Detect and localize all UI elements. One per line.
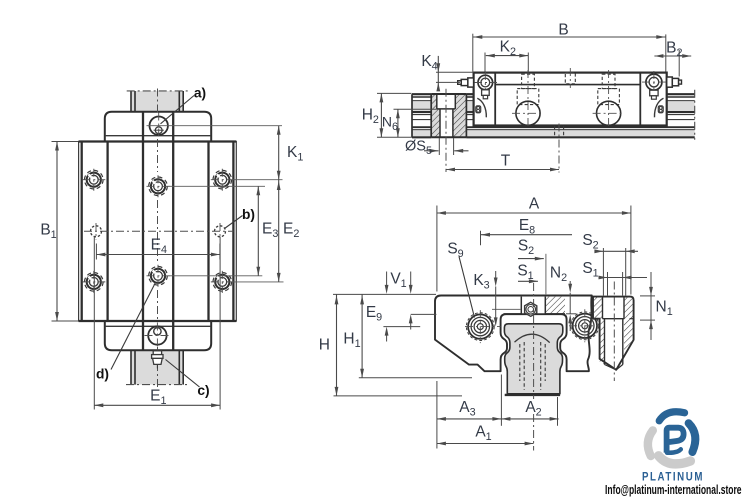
svg-text:H: H xyxy=(319,337,330,354)
svg-text:c): c) xyxy=(197,383,209,398)
svg-text:Info@platinum-international.st: Info@platinum-international.store xyxy=(605,483,742,497)
svg-text:A: A xyxy=(529,196,540,213)
svg-text:a): a) xyxy=(194,86,206,101)
svg-text:d): d) xyxy=(96,367,109,382)
svg-text:b): b) xyxy=(242,207,255,222)
svg-text:B: B xyxy=(558,22,568,39)
svg-text:T: T xyxy=(501,153,511,170)
svg-text:PLATINUM: PLATINUM xyxy=(642,470,704,484)
